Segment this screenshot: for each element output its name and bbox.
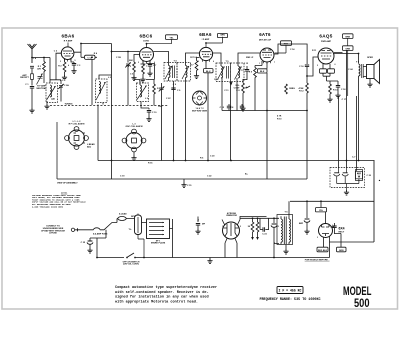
svg-text:C 7: C 7 — [153, 65, 157, 67]
svg-text:L 1: L 1 — [60, 80, 64, 82]
svg-text:MF: MF — [202, 224, 206, 226]
description text — [115, 285, 217, 304]
svg-text:B+: B+ — [245, 174, 249, 176]
trimmer C2C — [159, 83, 165, 161]
svg-text:OSC: OSC — [158, 106, 163, 108]
svg-text:TUNING: TUNING — [65, 103, 73, 105]
svg-text:R 11: R 11 — [312, 50, 317, 52]
svg-text:50: 50 — [248, 226, 251, 228]
b plus right elbow — [290, 161, 374, 243]
svg-text:1K: 1K — [358, 176, 361, 178]
resistor R17 — [356, 170, 380, 181]
wires T5 bottom — [222, 78, 237, 161]
svg-text:47K: 47K — [37, 67, 41, 70]
coil L2 rf coil can — [96, 77, 112, 103]
svg-text:MODEL: MODEL — [343, 286, 372, 298]
avc bus lower — [57, 122, 307, 179]
capacitor C14 — [271, 218, 280, 257]
fuse F1 — [117, 216, 136, 223]
svg-text:T 4: T 4 — [173, 60, 177, 63]
svg-text:I F = 455 KC: I F = 455 KC — [279, 289, 302, 293]
socket box B2 — [337, 247, 347, 252]
wire L2 top — [99, 58, 112, 79]
svg-text:C 22: C 22 — [207, 176, 212, 178]
pins V2 — [143, 61, 150, 64]
test point box TP2 — [206, 33, 228, 47]
svg-text:Compact automotive type superh: Compact automotive type superheterodyne … — [115, 285, 217, 290]
svg-text:C-7: C-7 — [352, 157, 356, 159]
svg-text:R 2: R 2 — [58, 66, 62, 68]
svg-text:VIEW OF ASSEMBLY: VIEW OF ASSEMBLY — [57, 181, 78, 184]
svg-text:R 8: R 8 — [236, 90, 240, 92]
svg-text:SPARK PLATE: SPARK PLATE — [151, 242, 166, 245]
svg-text:7: 7 — [274, 62, 275, 64]
label C15 ground — [181, 179, 192, 188]
wire V5 plate to T7 — [334, 54, 359, 64]
svg-text:1ST I-F: 1ST I-F — [190, 57, 198, 59]
svg-text:2: 2 — [317, 65, 318, 67]
spark plate SP1 — [142, 219, 173, 245]
svg-text:C 14: C 14 — [290, 48, 295, 51]
svg-text:A FUSE: A FUSE — [49, 232, 57, 235]
svg-text:C 6: C 6 — [130, 74, 134, 76]
a lead bus — [173, 219, 330, 258]
svg-text:FREQUENCY RANGE: 535 TO 1600KC: FREQUENCY RANGE: 535 TO 1600KC — [259, 298, 320, 302]
buffer resistor R15 — [256, 218, 259, 240]
value labels — [33, 48, 356, 178]
svg-text:signed for installation in any: signed for installation in any car when … — [115, 295, 209, 300]
svg-text:BLK: BLK — [260, 71, 265, 73]
tube V6 6X4 — [319, 212, 345, 258]
wire V4 plate — [274, 44, 307, 64]
heater cap C30 — [331, 223, 342, 247]
svg-text:2: 2 — [138, 62, 139, 64]
svg-text:T 6: T 6 — [284, 212, 288, 214]
avc resistor R10 — [277, 115, 282, 121]
diode load R9 — [249, 61, 262, 111]
test point box TP4 — [343, 34, 354, 39]
svg-text:6X4: 6X4 — [339, 226, 345, 230]
svg-text:5: 5 — [75, 60, 76, 62]
svg-text:C 1B: C 1B — [116, 57, 121, 59]
svg-text:C 1: C 1 — [25, 84, 29, 86]
resistor R1 — [37, 62, 45, 84]
svg-text:1: 1 — [222, 226, 223, 228]
battery lead text — [41, 226, 66, 235]
svg-text:T.L.: T.L. — [129, 229, 133, 231]
wire osc bottom — [147, 64, 155, 80]
socket box B1 — [317, 247, 328, 252]
ground tuning left — [44, 98, 54, 110]
test point box TP1 — [147, 35, 178, 44]
svg-text:R 4: R 4 — [94, 52, 98, 55]
svg-text:C 13: C 13 — [239, 70, 244, 72]
svg-text:R 12: R 12 — [299, 90, 304, 92]
svg-text:C 24: C 24 — [348, 68, 353, 71]
grid components V2 — [128, 55, 140, 81]
tube V5 6AQ5 — [318, 34, 334, 65]
filter cap pack C22 — [330, 168, 372, 191]
svg-text:4: 4 — [68, 64, 69, 67]
trimmer C2B — [98, 103, 103, 161]
choke L5 — [129, 214, 144, 258]
svg-text:C 12: C 12 — [220, 107, 225, 109]
cathode boxes V5 — [320, 64, 335, 76]
if transformer T5 — [216, 61, 244, 82]
svg-text:22K: 22K — [129, 60, 133, 62]
cathode R2 C3 — [58, 59, 76, 81]
wire plate V1 top bus — [74, 44, 112, 58]
svg-text:FOR MODELS BEFORE...: FOR MODELS BEFORE... — [305, 260, 330, 262]
pins V3 — [203, 60, 210, 63]
tube V3 6BA6 IF — [199, 32, 212, 61]
svg-text:BLU: BLU — [206, 71, 211, 73]
screen box C1A — [81, 55, 97, 59]
svg-text:R 16: R 16 — [148, 163, 153, 165]
fuse lead — [78, 213, 128, 236]
svg-text:R 8: R 8 — [230, 107, 234, 109]
avc cap C13 — [239, 66, 249, 80]
transformer T6 — [275, 201, 293, 254]
svg-text:OSC COIL ASS'M: OSC COIL ASS'M — [125, 125, 142, 128]
svg-text:6: 6 — [335, 64, 336, 66]
capacitor C15 — [260, 218, 269, 235]
capacitor C23 — [195, 217, 205, 235]
svg-text:C 18: C 18 — [341, 89, 346, 91]
svg-text:.5: .5 — [197, 220, 200, 222]
tube V1 6BA6 — [61, 34, 74, 60]
svg-text:1MEG: 1MEG — [289, 88, 295, 90]
svg-text:C 2A: C 2A — [64, 84, 69, 87]
heater drop wires — [339, 50, 357, 168]
svg-text:R F AMP: R F AMP — [64, 40, 73, 43]
antenna — [28, 44, 37, 63]
ground marker T5 — [229, 82, 232, 85]
wire B plus right — [358, 80, 360, 161]
svg-text:NEUTRAL: NEUTRAL — [37, 87, 48, 90]
svg-text:CONV: CONV — [143, 41, 150, 43]
svg-text:.5: .5 — [277, 226, 280, 228]
label neutral — [37, 85, 48, 90]
socket view S3 if trans — [192, 91, 207, 112]
wire V2 plate to T4 — [153, 52, 200, 66]
wire plate bus y51.5 — [112, 44, 140, 180]
ground vibrator bus — [207, 258, 212, 264]
osc grid RC — [134, 76, 161, 106]
svg-text:C 13: C 13 — [244, 63, 249, 65]
svg-text:6BC6: 6BC6 — [140, 34, 153, 39]
capacitor C1 — [25, 79, 34, 108]
svg-text:500: 500 — [354, 298, 370, 310]
wire vibrator to T6 — [240, 217, 279, 219]
svg-text:C 17: C 17 — [342, 99, 347, 101]
capacitor C9 — [171, 88, 181, 92]
svg-text:C 19: C 19 — [120, 176, 125, 178]
svg-text:6AQ5: 6AQ5 — [319, 34, 332, 39]
svg-text:R 9: R 9 — [249, 72, 253, 74]
test point box TP5 — [334, 38, 353, 96]
test point box TP3 — [275, 41, 292, 53]
svg-text:6: 6 — [213, 61, 214, 63]
vibrator VB1 — [222, 212, 267, 258]
svg-text:C 3: C 3 — [77, 65, 81, 67]
svg-text:C 9: C 9 — [177, 90, 181, 92]
svg-text:RED BLK: RED BLK — [318, 250, 328, 252]
svg-text:C 25: C 25 — [81, 242, 86, 244]
svg-text:DET AVC AF: DET AVC AF — [259, 39, 272, 42]
pins V1 — [65, 59, 71, 62]
model title — [343, 286, 372, 310]
tube V2 6BC6 — [140, 34, 154, 62]
svg-text:R17: R17 — [357, 173, 362, 175]
grid resistor R12 — [299, 83, 309, 179]
svg-text:C-15: C-15 — [262, 234, 267, 236]
svg-text:A LEAD: A LEAD — [119, 213, 127, 216]
svg-text:6: 6 — [154, 62, 155, 64]
ground ant — [29, 108, 34, 113]
trimmer C6 — [125, 62, 134, 105]
wire V3 plate to T5 — [213, 53, 260, 66]
capacitor C12 — [220, 104, 232, 111]
svg-text:C 10: C 10 — [152, 112, 157, 114]
svg-text:VIBRATOR: VIBRATOR — [226, 214, 237, 217]
svg-text:R 3: R 3 — [128, 66, 132, 68]
svg-text:K-ONE THOUSAND (1000 OHM): K-ONE THOUSAND (1000 OHM) — [32, 205, 63, 208]
svg-text:4 7K: 4 7K — [277, 115, 282, 118]
dashed tuning line — [50, 103, 168, 105]
cathode R13 C18 — [327, 76, 341, 102]
svg-text:(ON VOL CONT): (ON VOL CONT) — [123, 264, 139, 266]
svg-text:6BA6: 6BA6 — [199, 32, 212, 37]
svg-text:C 9: C 9 — [173, 84, 177, 86]
svg-text:6AT6: 6AT6 — [259, 32, 271, 37]
coil L1 ant coil can — [46, 83, 58, 103]
svg-text:R 10: R 10 — [277, 119, 282, 121]
svg-text:GRN: GRN — [345, 48, 350, 50]
trimmer C2A — [58, 80, 69, 102]
if transformer T4 — [164, 60, 191, 82]
ground battery — [81, 230, 106, 253]
svg-text:3: 3 — [60, 61, 61, 63]
svg-text:C 2C: C 2C — [166, 98, 171, 100]
battery plug P1 — [71, 228, 77, 231]
svg-text:R F COIL ASS'M: R F COIL ASS'M — [69, 123, 85, 126]
b plus bus — [98, 160, 375, 162]
svg-text:T 5: T 5 — [225, 61, 229, 63]
svg-text:GRN: GRN — [220, 35, 225, 37]
resistor R11 — [285, 84, 296, 94]
volume control R8 — [234, 79, 250, 111]
pins V4 — [264, 61, 271, 64]
svg-text:R 13: R 13 — [333, 90, 338, 92]
svg-text:3: 3 — [317, 237, 318, 239]
svg-text:8MF: 8MF — [299, 223, 304, 225]
svg-text:with self-contained speaker.: with self-contained speaker. Receiver is… — [115, 290, 209, 295]
coil L3 osc can — [137, 83, 149, 102]
svg-text:C 12: C 12 — [214, 79, 219, 81]
wire T4 bottoms — [169, 78, 186, 161]
svg-text:R 6: R 6 — [200, 158, 204, 160]
wire screen drop — [91, 59, 93, 105]
tube V4 6AT6 — [259, 32, 274, 62]
notes text — [32, 191, 86, 208]
svg-text:SPKR: SPKR — [367, 57, 373, 59]
socket view S1 rf coil assembly — [65, 121, 96, 149]
svg-text:1: 1 — [198, 61, 199, 63]
svg-text:6BA6: 6BA6 — [62, 34, 75, 39]
avc bus — [222, 79, 307, 111]
socket view S2 osc coil assembly — [122, 124, 146, 161]
svg-text:I F AMP: I F AMP — [202, 38, 210, 41]
ant connector J1 — [20, 66, 34, 79]
speaker SP — [363, 57, 379, 87]
svg-text:C 11: C 11 — [224, 90, 229, 92]
svg-text:RECEPT: RECEPT — [20, 77, 29, 79]
svg-text:1: 1 — [259, 63, 260, 65]
svg-text:PWR AMP: PWR AMP — [321, 40, 332, 43]
cathode box V4 — [258, 62, 268, 179]
svg-text:C 15: C 15 — [187, 185, 192, 187]
label R6 — [200, 158, 212, 178]
switch SW1 — [97, 238, 173, 266]
cathode components V2 — [140, 61, 157, 83]
svg-text:2ND I-F: 2ND I-F — [246, 57, 254, 59]
svg-text:BOTTOM VIEW: BOTTOM VIEW — [192, 110, 207, 112]
output transformer T7 — [348, 62, 363, 80]
screen box V3 — [204, 61, 214, 161]
svg-text:T 7: T 7 — [356, 62, 360, 64]
svg-text:1: 1 — [332, 225, 333, 227]
coupling cap C16 — [299, 65, 309, 83]
buffer resistor R14 — [248, 218, 254, 240]
svg-text:R 7: R 7 — [190, 65, 194, 67]
capacitor C12b — [240, 104, 244, 111]
svg-text:GRN: GRN — [339, 250, 344, 252]
svg-text:BRN: BRN — [345, 36, 350, 38]
wire grid V1 — [44, 53, 61, 83]
wire grid V5 — [307, 57, 318, 76]
svg-text:with appropriate Motorola cont: with appropriate Motorola control head. — [115, 299, 198, 304]
trimmer C5 — [37, 74, 43, 85]
buzz box — [316, 201, 327, 212]
ground filter — [344, 190, 349, 195]
if freq box — [277, 287, 303, 294]
rect cap C29 — [299, 201, 310, 234]
ground mid left — [141, 102, 157, 122]
cathode V3 — [190, 58, 199, 79]
svg-text:C 16: C 16 — [299, 66, 304, 68]
svg-text:C 20: C 20 — [210, 156, 215, 158]
svg-text:C 20: C 20 — [367, 175, 372, 177]
pin number digits — [60, 60, 336, 239]
wire ant to grid network — [32, 58, 44, 62]
svg-text:7: 7 — [146, 66, 147, 68]
svg-text:C 2: C 2 — [54, 51, 58, 53]
svg-text:2: 2 — [240, 226, 241, 228]
